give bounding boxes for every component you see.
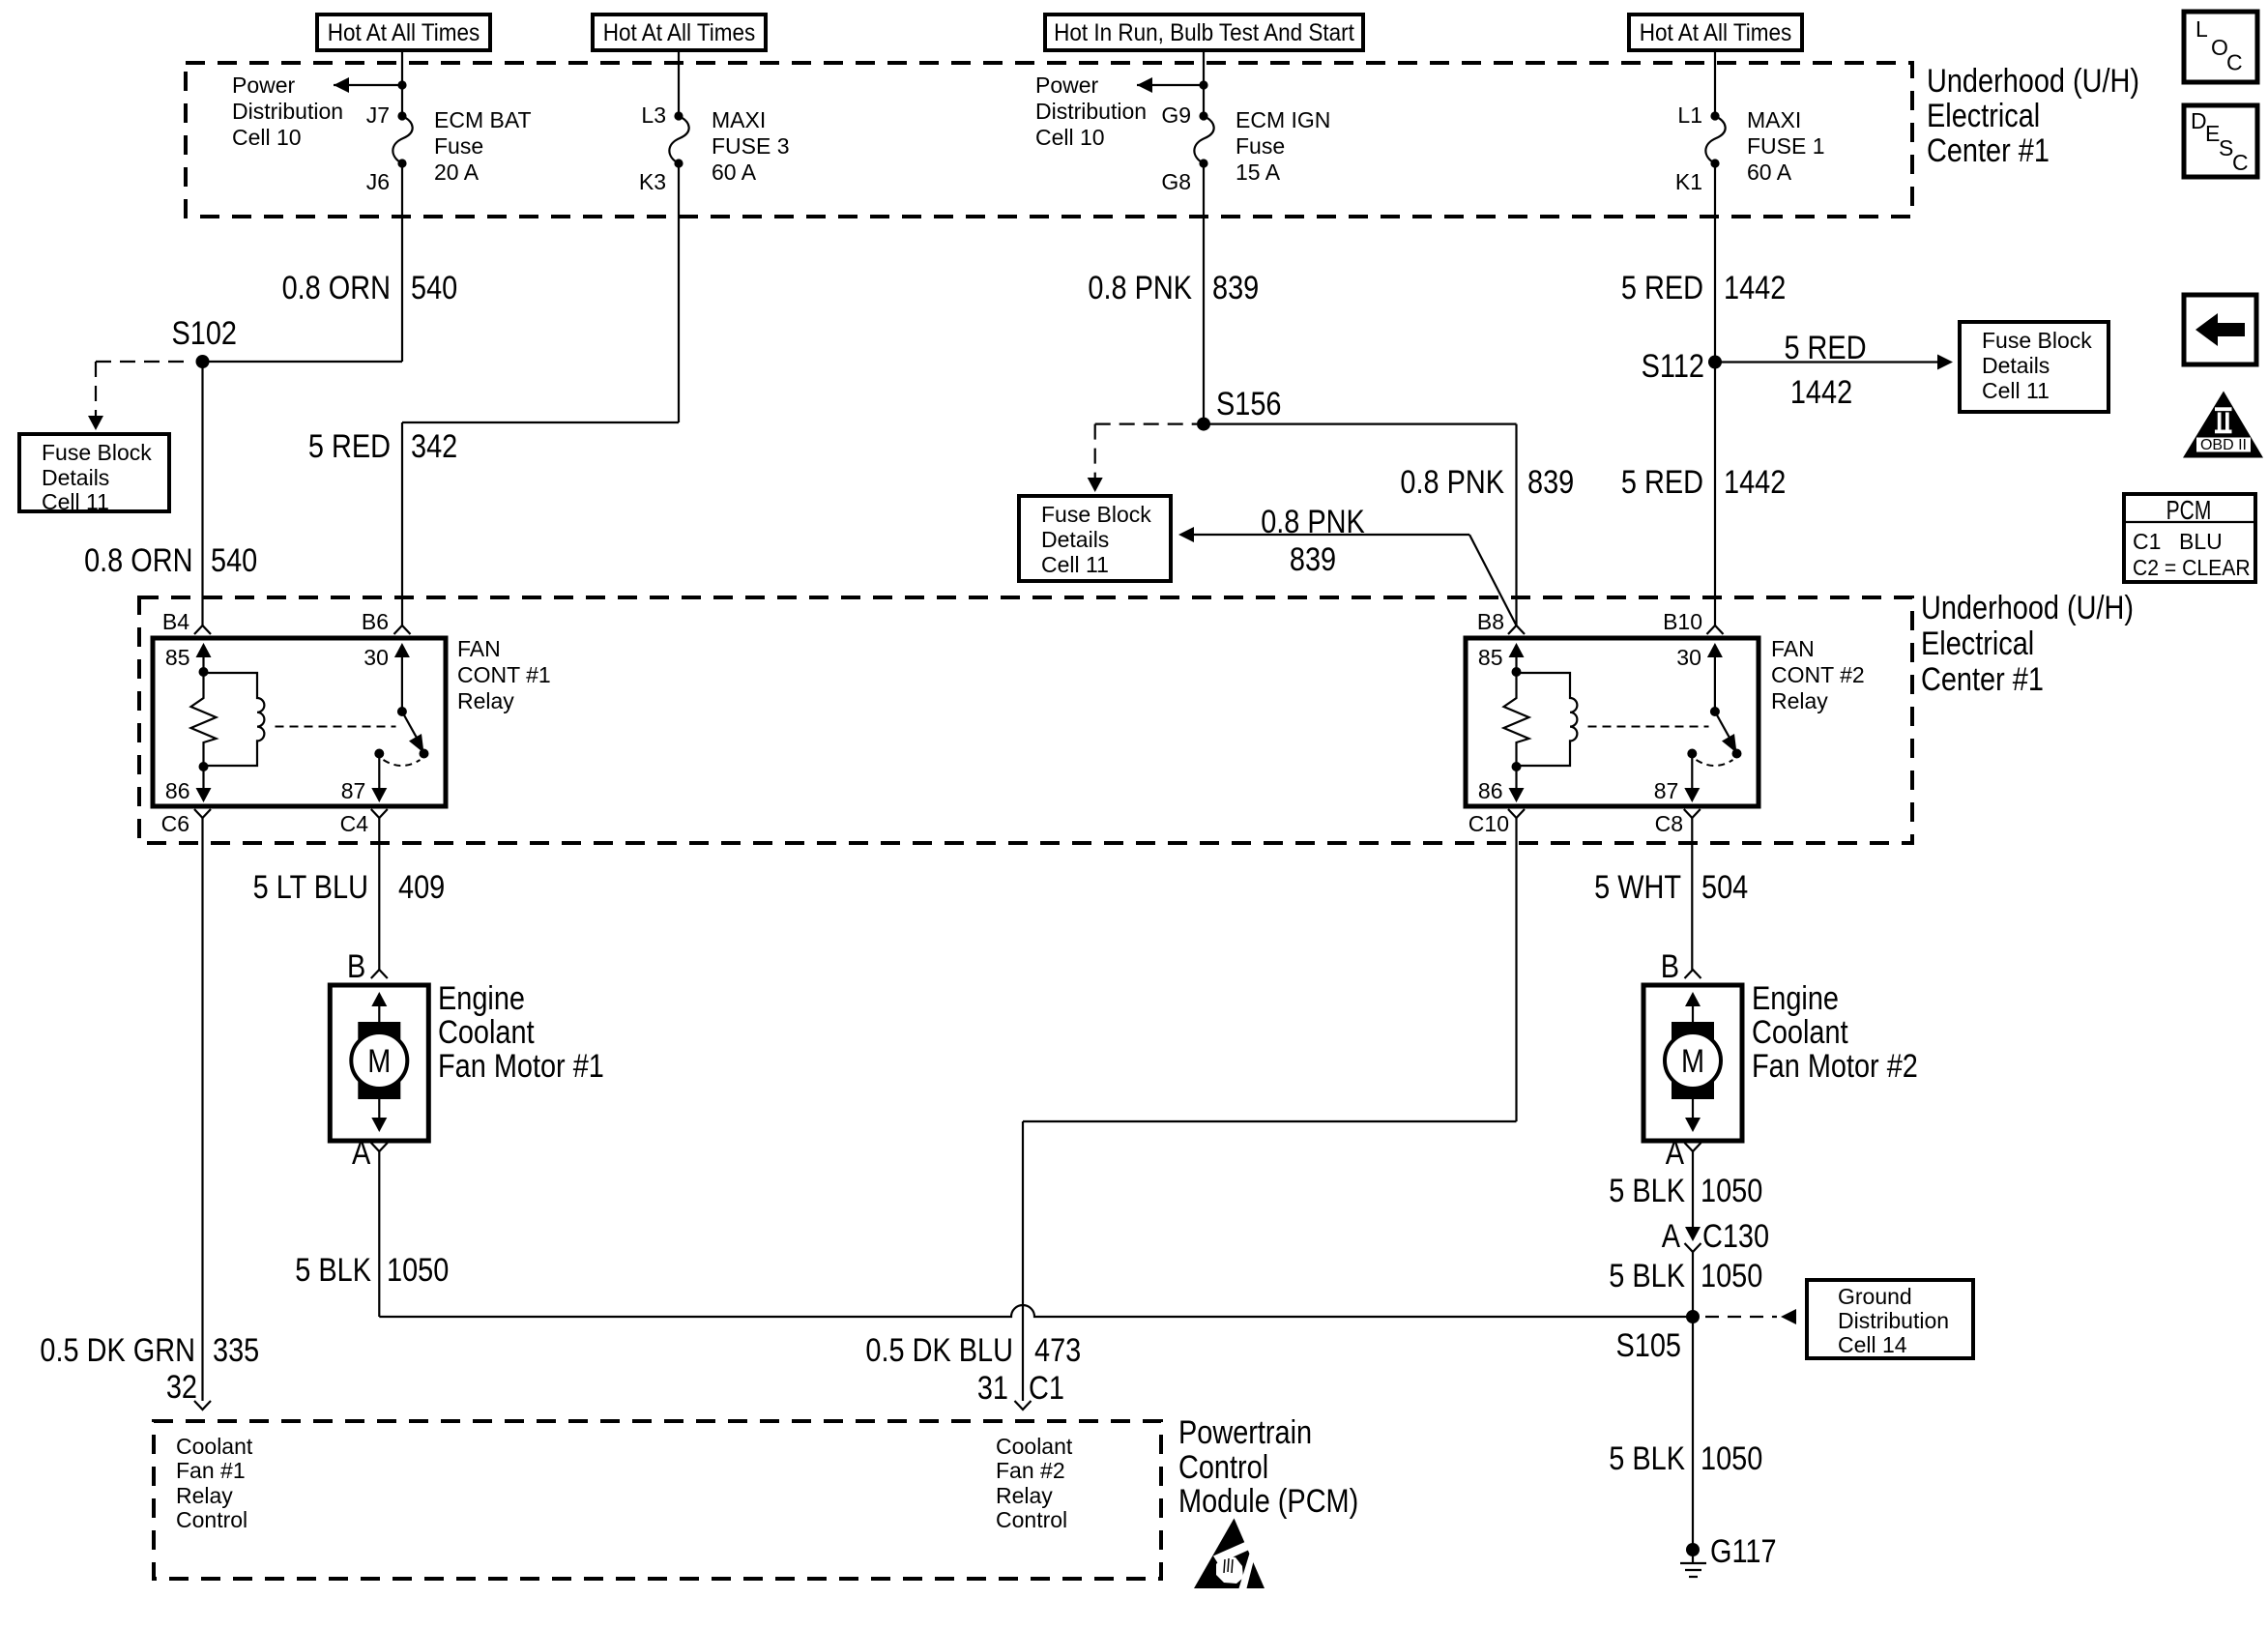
- svg-text:K1: K1: [1675, 169, 1702, 194]
- svg-text:C: C: [2226, 50, 2243, 75]
- svg-text:Relay: Relay: [996, 1483, 1053, 1508]
- svg-text:Cell 14: Cell 14: [1838, 1332, 1907, 1357]
- svg-text:Cell 10: Cell 10: [232, 125, 302, 150]
- svg-text:Cell 11: Cell 11: [1041, 552, 1109, 577]
- svg-text:C6: C6: [161, 811, 189, 836]
- svg-text:60 A: 60 A: [712, 160, 757, 185]
- svg-text:PCM: PCM: [2166, 496, 2212, 526]
- svg-text:J7: J7: [366, 102, 390, 128]
- svg-text:31: 31: [977, 1369, 1008, 1407]
- svg-text:540: 540: [211, 541, 257, 579]
- svg-text:Distribution: Distribution: [232, 99, 343, 124]
- svg-text:1442: 1442: [1724, 269, 1786, 306]
- svg-text:S156: S156: [1216, 385, 1281, 422]
- svg-text:Distribution: Distribution: [1838, 1308, 1949, 1333]
- svg-text:Fan Motor #1: Fan Motor #1: [438, 1047, 604, 1085]
- svg-text:Cell 10: Cell 10: [1035, 125, 1105, 150]
- svg-text:Fan #2: Fan #2: [996, 1458, 1065, 1483]
- svg-text:1050: 1050: [387, 1251, 449, 1289]
- svg-text:Hot At All Times: Hot At All Times: [1640, 19, 1792, 46]
- svg-text:Fan Motor #2: Fan Motor #2: [1752, 1047, 1918, 1085]
- svg-text:0.5 DK BLU: 0.5 DK BLU: [865, 1331, 1013, 1369]
- svg-text:A: A: [1662, 1217, 1680, 1255]
- svg-text:Cell 11: Cell 11: [1982, 378, 2050, 403]
- svg-text:FUSE 1: FUSE 1: [1747, 133, 1825, 159]
- svg-text:Powertrain: Powertrain: [1178, 1413, 1312, 1451]
- svg-text:0.8 PNK: 0.8 PNK: [1261, 503, 1365, 540]
- svg-text:Engine: Engine: [1752, 979, 1839, 1017]
- svg-text:Control: Control: [1178, 1448, 1268, 1486]
- svg-text:L3: L3: [641, 102, 666, 128]
- svg-text:473: 473: [1034, 1331, 1081, 1369]
- svg-text:Electrical: Electrical: [1927, 97, 2040, 134]
- svg-text:5 RED: 5 RED: [1621, 463, 1703, 501]
- svg-text:CONT #2: CONT #2: [1771, 662, 1865, 687]
- svg-text:L1: L1: [1677, 102, 1702, 128]
- svg-text:G9: G9: [1161, 102, 1191, 128]
- svg-text:5 BLK: 5 BLK: [1609, 1172, 1685, 1209]
- svg-text:839: 839: [1527, 463, 1574, 501]
- svg-text:Relay: Relay: [176, 1483, 233, 1508]
- svg-text:1050: 1050: [1701, 1439, 1762, 1477]
- svg-text:B8: B8: [1477, 609, 1504, 634]
- svg-text:Coolant: Coolant: [996, 1434, 1073, 1459]
- svg-text:C130: C130: [1702, 1217, 1769, 1255]
- svg-text:S105: S105: [1616, 1326, 1681, 1364]
- svg-text:Control: Control: [176, 1507, 247, 1532]
- svg-text:1442: 1442: [1790, 373, 1852, 411]
- svg-text:C1: C1: [1029, 1369, 1064, 1407]
- svg-text:C: C: [2232, 150, 2249, 175]
- svg-text:C4: C4: [340, 811, 369, 836]
- svg-text:60 A: 60 A: [1747, 160, 1792, 185]
- svg-text:5 BLK: 5 BLK: [1609, 1439, 1685, 1477]
- svg-text:J6: J6: [366, 169, 390, 194]
- svg-text:Module (PCM): Module (PCM): [1178, 1482, 1358, 1520]
- svg-text:Power: Power: [1035, 73, 1099, 98]
- svg-text:C8: C8: [1655, 811, 1683, 836]
- svg-text:S102: S102: [172, 314, 237, 352]
- svg-text:1442: 1442: [1724, 463, 1786, 501]
- svg-text:0.5 DK GRN: 0.5 DK GRN: [40, 1331, 195, 1369]
- svg-text:Fuse Block: Fuse Block: [1041, 502, 1151, 527]
- svg-text:342: 342: [411, 427, 457, 465]
- svg-text:S112: S112: [1642, 347, 1704, 385]
- svg-text:409: 409: [398, 868, 445, 906]
- svg-text:504: 504: [1701, 868, 1748, 906]
- svg-text:Relay: Relay: [1771, 688, 1828, 713]
- svg-text:Engine: Engine: [438, 979, 525, 1017]
- svg-text:FAN: FAN: [1771, 636, 1815, 661]
- svg-text:1050: 1050: [1701, 1172, 1762, 1209]
- svg-text:32: 32: [166, 1368, 197, 1406]
- svg-text:20 A: 20 A: [434, 160, 480, 185]
- svg-text:C2 = CLEAR: C2 = CLEAR: [2133, 555, 2251, 580]
- svg-text:15 A: 15 A: [1236, 160, 1281, 185]
- svg-text:Center #1: Center #1: [1927, 131, 2050, 169]
- svg-text:Details: Details: [1041, 527, 1109, 552]
- svg-text:Distribution: Distribution: [1035, 99, 1147, 124]
- svg-text:BLU: BLU: [2179, 529, 2223, 554]
- svg-text:G117: G117: [1710, 1532, 1777, 1570]
- svg-text:L: L: [2195, 16, 2208, 42]
- svg-text:FUSE 3: FUSE 3: [712, 133, 790, 159]
- svg-text:Fuse: Fuse: [1236, 133, 1285, 159]
- svg-text:Fuse Block: Fuse Block: [1982, 328, 2092, 353]
- svg-text:G8: G8: [1161, 169, 1191, 194]
- svg-text:Coolant: Coolant: [438, 1013, 535, 1051]
- svg-text:Details: Details: [42, 465, 109, 490]
- svg-text:K3: K3: [639, 169, 666, 194]
- svg-text:Fan #1: Fan #1: [176, 1458, 246, 1483]
- svg-text:0.8 PNK: 0.8 PNK: [1088, 269, 1192, 306]
- svg-text:CONT #1: CONT #1: [457, 662, 551, 687]
- svg-text:839: 839: [1290, 540, 1336, 578]
- svg-text:5 RED: 5 RED: [1784, 329, 1866, 366]
- svg-text:C10: C10: [1468, 811, 1509, 836]
- svg-text:Underhood (U/H): Underhood (U/H): [1927, 62, 2139, 100]
- svg-text:Control: Control: [996, 1507, 1067, 1532]
- svg-text:Underhood (U/H): Underhood (U/H): [1921, 589, 2134, 626]
- svg-text:Power: Power: [232, 73, 296, 98]
- svg-text:540: 540: [411, 269, 457, 306]
- svg-text:5 BLK: 5 BLK: [295, 1251, 371, 1289]
- svg-text:Center #1: Center #1: [1921, 660, 2044, 698]
- svg-text:335: 335: [213, 1331, 259, 1369]
- svg-text:839: 839: [1212, 269, 1259, 306]
- svg-text:Electrical: Electrical: [1921, 625, 2034, 662]
- svg-text:5 RED: 5 RED: [1621, 269, 1703, 306]
- svg-text:Hot In Run, Bulb Test And Star: Hot In Run, Bulb Test And Start: [1054, 19, 1354, 46]
- svg-text:Details: Details: [1982, 353, 2050, 378]
- svg-text:5 WHT: 5 WHT: [1594, 868, 1681, 906]
- svg-text:Fuse Block: Fuse Block: [42, 440, 152, 465]
- svg-text:MAXI: MAXI: [712, 107, 766, 132]
- svg-text:0.8 ORN: 0.8 ORN: [282, 269, 391, 306]
- svg-text:Coolant: Coolant: [176, 1434, 253, 1459]
- svg-text:Hot At All Times: Hot At All Times: [328, 19, 480, 46]
- svg-text:1050: 1050: [1701, 1257, 1762, 1294]
- svg-text:Cell 11: Cell 11: [42, 489, 109, 514]
- svg-text:Coolant: Coolant: [1752, 1013, 1848, 1051]
- svg-text:Relay: Relay: [457, 688, 514, 713]
- svg-text:0.8 PNK: 0.8 PNK: [1400, 463, 1504, 501]
- svg-text:ECM BAT: ECM BAT: [434, 107, 532, 132]
- svg-text:5 BLK: 5 BLK: [1609, 1257, 1685, 1294]
- svg-text:Fuse: Fuse: [434, 133, 483, 159]
- svg-text:0.8 ORN: 0.8 ORN: [84, 541, 192, 579]
- svg-text:B6: B6: [362, 609, 389, 634]
- svg-text:5 LT BLU: 5 LT BLU: [253, 868, 368, 906]
- svg-text:B10: B10: [1663, 609, 1702, 634]
- svg-text:B4: B4: [162, 609, 189, 634]
- svg-text:C1: C1: [2133, 529, 2161, 554]
- svg-text:ECM IGN: ECM IGN: [1236, 107, 1330, 132]
- svg-text:OBD II: OBD II: [2200, 437, 2247, 453]
- svg-text:Hot At All Times: Hot At All Times: [603, 19, 756, 46]
- svg-text:Ground: Ground: [1838, 1284, 1912, 1309]
- svg-text:FAN: FAN: [457, 636, 501, 661]
- svg-text:MAXI: MAXI: [1747, 107, 1801, 132]
- svg-text:5 RED: 5 RED: [308, 427, 391, 465]
